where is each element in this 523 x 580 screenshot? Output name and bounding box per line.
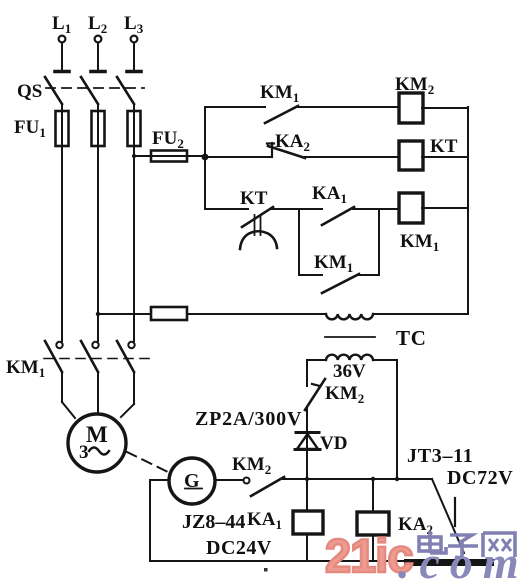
svg-text:KT: KT bbox=[240, 188, 268, 209]
wire row1 right bbox=[297, 106, 399, 108]
contact KM1 (NO, seal-in) bbox=[260, 82, 299, 123]
svg-text:DC72V: DC72V bbox=[447, 467, 513, 489]
wire DC line bbox=[283, 478, 432, 480]
transformer TC bbox=[325, 314, 427, 360]
svg-text:QS: QS bbox=[17, 81, 42, 102]
wire phase2 fuse to KM1 main bbox=[97, 146, 99, 341]
contact KM2 (NO, generator) bbox=[215, 454, 284, 496]
contact KA1 (NO) bbox=[312, 183, 354, 225]
motor M bbox=[68, 414, 126, 472]
contact KM2 (NO, rectifier branch) bbox=[305, 379, 364, 410]
wire row3 left bbox=[205, 208, 248, 210]
wire right rail bbox=[467, 107, 469, 314]
wire KM2 contact to KA1 coil (through VD) bbox=[306, 408, 308, 479]
wire G left to border bbox=[150, 479, 169, 481]
svg-text:36V: 36V bbox=[333, 361, 366, 382]
wire phase1 fuse to KM1 main bbox=[61, 146, 63, 341]
node L2 terminal bbox=[88, 13, 107, 42]
contact KM1 (NO, parallel) bbox=[314, 252, 359, 293]
wire KM2 coil to right rail bbox=[422, 107, 468, 109]
svg-text:JZ8–44: JZ8–44 bbox=[182, 511, 245, 533]
wire row2 right bbox=[305, 156, 399, 158]
contact KA2 (NC) bbox=[267, 131, 310, 158]
wire KM1 coil to right rail bbox=[422, 207, 468, 209]
contact KT (NC time-delay) bbox=[240, 188, 277, 249]
switch QS bbox=[17, 72, 144, 105]
coil KA1 bbox=[247, 479, 323, 561]
watermark 21ic bbox=[325, 529, 412, 580]
svg-text:DC24V: DC24V bbox=[206, 537, 272, 559]
wire left rail bbox=[204, 107, 206, 209]
wire phase3 fuse to KM1 main bbox=[133, 146, 135, 341]
wires to motor bbox=[62, 372, 134, 418]
wire secondary right bbox=[373, 359, 397, 361]
wire L3 to QS bbox=[133, 43, 135, 71]
wire KT coil to right rail bbox=[422, 156, 468, 158]
wire KM1 parallel branch bbox=[299, 209, 379, 275]
svg-text:ZP2A/300V: ZP2A/300V bbox=[195, 408, 302, 430]
coil KT bbox=[399, 136, 458, 170]
wire row3 right bbox=[353, 208, 399, 210]
svg-text:.com: .com bbox=[398, 537, 523, 580]
diode VD bbox=[295, 433, 347, 455]
svg-text:VD: VD bbox=[320, 433, 347, 454]
svg-text:3: 3 bbox=[79, 442, 89, 463]
svg-text:M: M bbox=[86, 422, 108, 447]
speck bbox=[264, 568, 268, 572]
coil KM1 bbox=[399, 193, 439, 254]
wire secondary left bbox=[307, 359, 326, 361]
wire L2 to QS bbox=[97, 43, 99, 71]
svg-text:JT3–11: JT3–11 bbox=[407, 445, 473, 467]
wire row2 left bbox=[205, 156, 272, 158]
generator G bbox=[169, 458, 215, 504]
fuse FU2 bbox=[132, 128, 205, 162]
wire row1 left bbox=[205, 106, 265, 108]
svg-text:TC: TC bbox=[396, 326, 427, 350]
fuse FU1 (three) bbox=[14, 104, 141, 146]
node L3 terminal bbox=[124, 13, 144, 42]
battery JT3-11 plate bbox=[404, 559, 494, 566]
wire L1 to QS bbox=[61, 43, 63, 71]
wire row3 mid bbox=[272, 208, 322, 210]
wire bottom rail bbox=[150, 560, 406, 562]
coil KA2 bbox=[357, 479, 433, 561]
node L1 terminal bbox=[52, 13, 71, 42]
svg-text:KT: KT bbox=[430, 136, 458, 157]
motor KM1 main contacts bbox=[6, 341, 150, 380]
node control feed bbox=[202, 154, 209, 161]
wire to battery bbox=[432, 479, 464, 553]
wire dashed M to G bbox=[127, 452, 168, 472]
watermark dian zi wang bbox=[419, 531, 515, 558]
coil KM2 bbox=[395, 74, 434, 123]
wire bottom control rail bbox=[96, 312, 468, 316]
fuse (control rail) bbox=[151, 307, 187, 320]
